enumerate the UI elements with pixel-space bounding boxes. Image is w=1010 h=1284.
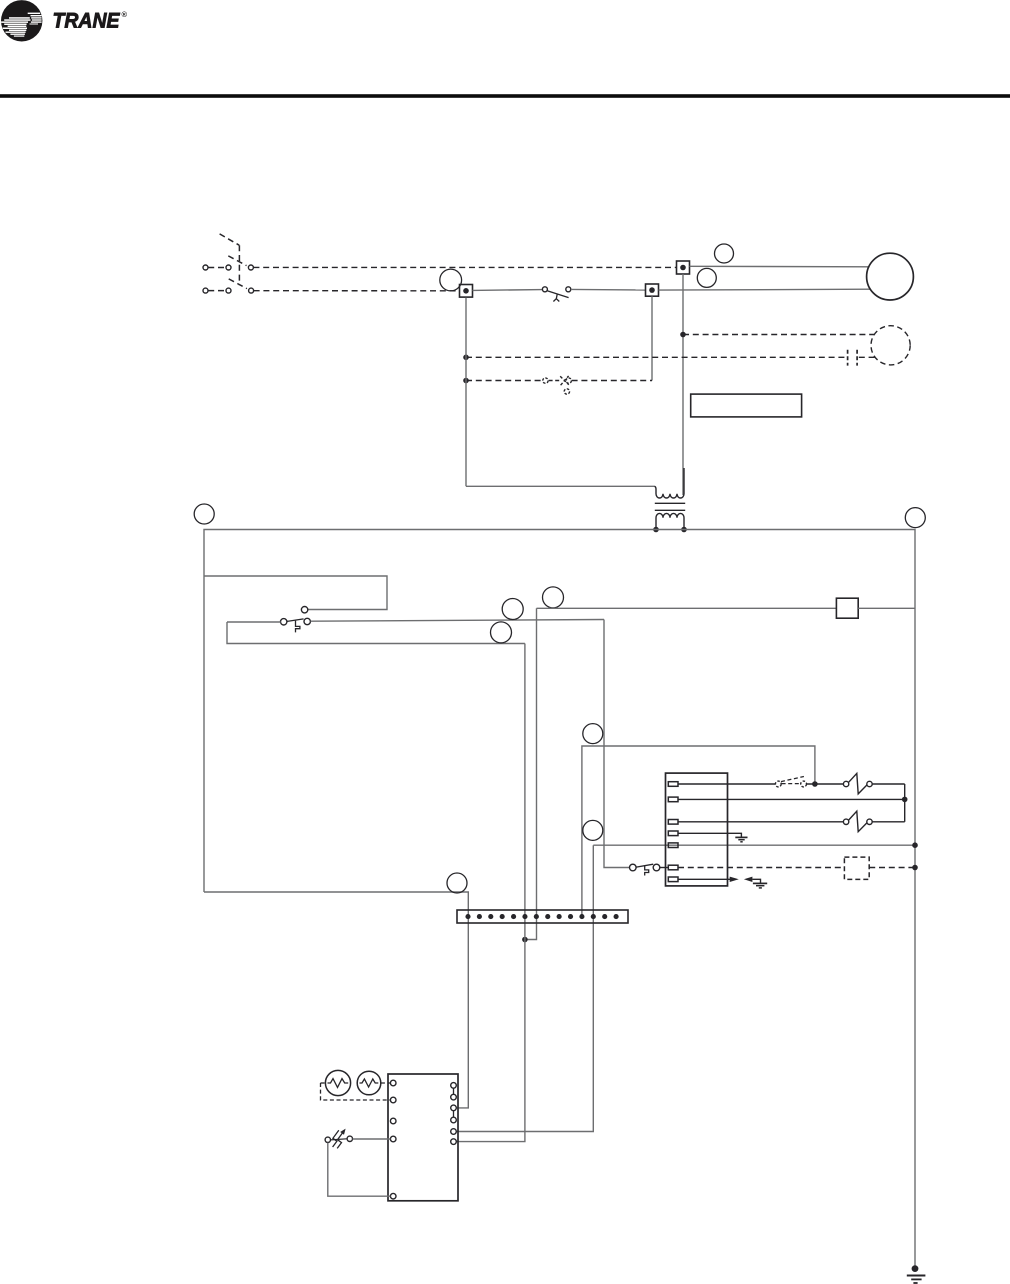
- wire vertical through terminal strip: [457, 644, 525, 1142]
- wire: [807, 783, 844, 785]
- high pressure switch S3 crossed blades: [560, 376, 569, 385]
- disconnect switch S1 line-side terminals row 2: [203, 288, 208, 293]
- terminal strip screw 14: [614, 914, 619, 919]
- terminal strip screw 3: [488, 914, 493, 919]
- board terminal pin 4: [668, 831, 678, 836]
- wire thermostat return loop: [328, 1143, 391, 1197]
- connector plug arrow male: [730, 877, 739, 882]
- ground symbol system ground: [912, 1265, 919, 1272]
- wire dashed capacitor to fan motor: [859, 356, 876, 358]
- wire board pin 7 to connector: [678, 878, 730, 880]
- wire dashed to run capacitor: [466, 356, 845, 358]
- thermostat right terminal 4: [451, 1117, 457, 1123]
- terminal strip screw 10: [568, 914, 573, 919]
- wire dashed to fan motor: [683, 334, 874, 336]
- wire L2 dashed to terminal block: [254, 290, 460, 292]
- wire vertical TB1 to primary lead: [465, 298, 467, 487]
- wire vertical junction leg: [904, 784, 906, 822]
- wire dashed to high pressure switch: [466, 380, 543, 382]
- thermostat left terminal 5: [390, 1193, 396, 1199]
- wire board pin 1 to defrost contact: [678, 783, 775, 785]
- terminal strip screw 8: [545, 914, 550, 919]
- jumper right terminals 1-2: [453, 1088, 455, 1094]
- svg-text:TRANE: TRANE: [53, 9, 121, 33]
- jumper right terminals 3-4: [453, 1111, 455, 1117]
- node junction: [680, 332, 686, 338]
- limit switch S4 blade: [287, 619, 303, 622]
- node junction: [463, 355, 469, 361]
- wire from limit switch: [311, 620, 605, 622]
- wire: [872, 783, 905, 785]
- terminal strip screw 1: [465, 914, 470, 919]
- run capacitor C1 plate 2: [856, 350, 858, 366]
- wire: [473, 289, 543, 292]
- wire label circle: [543, 587, 564, 608]
- thermostat left terminal 3: [390, 1118, 396, 1124]
- wire to relay board: [537, 607, 837, 609]
- wire to compressor motor: [690, 265, 870, 268]
- pressure control switch S5 contacts: [630, 864, 637, 871]
- transformer T1 primary winding: [654, 468, 684, 498]
- defrost relay contact K1 dashed: [775, 781, 781, 787]
- wire: [227, 622, 525, 644]
- board terminal pin 6: [668, 865, 678, 870]
- crankcase heater relay coil dashed box: [844, 857, 869, 879]
- ground symbol chassis ground: [753, 882, 767, 884]
- wire vertical to terminal strip: [525, 608, 537, 939]
- wire board pin 2: [678, 798, 905, 800]
- ground symbol board ground: [735, 836, 747, 838]
- board terminal pin 1: [668, 782, 678, 787]
- thermostat right terminal 2: [451, 1094, 457, 1100]
- disconnect switch S1 handle: [220, 234, 240, 245]
- transformer T1 secondary winding: [656, 513, 684, 529]
- wire dashed board pin 6 to heater relay: [678, 867, 844, 869]
- outdoor fan motor ODF dashed outline: [871, 326, 910, 365]
- overload protector OL1 element: [849, 773, 867, 794]
- terminal strip screw 7: [534, 914, 539, 919]
- pressure control switch S5 reset flag: [645, 866, 649, 876]
- wire upper loop: [204, 576, 387, 610]
- disconnect switch S1 blade pole 2: [229, 279, 247, 289]
- thermostat left terminal 4: [390, 1136, 396, 1142]
- pressure control switch S5 blade: [636, 864, 653, 867]
- terminal block TB1: [460, 285, 473, 298]
- disconnect switch S1 line-side terminals row 1: [203, 265, 208, 270]
- wire vertical from TB2: [651, 296, 653, 380]
- defrost termination thermostat S6 blade: [331, 1139, 347, 1140]
- wire L1 dashed to terminal block: [253, 266, 676, 268]
- compressor motor CPR: [867, 253, 914, 300]
- wire common line through relay board: [593, 844, 915, 846]
- connector plug arrow female: [744, 877, 753, 882]
- wire: [872, 821, 905, 823]
- terminal strip screw 2: [477, 914, 482, 919]
- wire board pin 4 to ground: [678, 833, 741, 837]
- wire thermostat to box: [353, 1138, 391, 1140]
- low voltage terminal strip TB4: [457, 910, 628, 923]
- wire to defrost relay contact: [582, 746, 815, 917]
- limit switch S4 lower contacts: [281, 619, 287, 625]
- limit switch S4 reset flag: [296, 621, 300, 633]
- defrost thermostat heater resistor R2: [357, 1071, 381, 1095]
- terminal block TB2: [646, 284, 659, 296]
- terminal strip screw 11: [579, 914, 584, 919]
- thermostat left terminal 2: [390, 1097, 396, 1103]
- Trane logo circle emblem: [1, 0, 42, 41]
- node junction on right bus: [912, 865, 918, 871]
- node transformer secondary X2: [681, 527, 687, 533]
- wire label circle: [715, 244, 734, 263]
- node junction: [463, 378, 469, 384]
- wire dashed jumper row 2 left: [208, 290, 226, 292]
- wire dashed between contacts: [549, 380, 560, 382]
- transformer T1 core: [655, 502, 685, 504]
- run capacitor C1 plate 1: [847, 350, 849, 366]
- door interlock switch S2 blade: [547, 291, 568, 298]
- defrost termination thermostat S6 contacts: [325, 1137, 330, 1142]
- high pressure switch S3 alternate throw contact: [564, 389, 569, 394]
- wire 24V bus: [204, 530, 915, 1269]
- wire dashed relay to right bus: [869, 867, 915, 869]
- board terminal pin 7: [668, 877, 678, 882]
- defrost control board outline: [666, 773, 728, 886]
- wire to bottom terminal block: [457, 845, 594, 1131]
- thermostat left terminal 1: [390, 1080, 396, 1086]
- wire label circle: [502, 599, 523, 620]
- board terminal pin 3: [668, 820, 678, 825]
- door interlock switch S2 contacts: [542, 287, 547, 292]
- node junction on right bus: [912, 842, 918, 848]
- overload protector OL2 element: [849, 811, 867, 832]
- wire label circle: [583, 820, 603, 840]
- wire to compressor motor: [659, 288, 871, 291]
- header rule: [0, 94, 1010, 98]
- wire: [571, 288, 646, 291]
- wire left bus to terminal strip: [204, 892, 468, 1108]
- node junction: [902, 797, 908, 803]
- terminal block TB3: [677, 261, 690, 274]
- wire vertical down from defrost line: [604, 620, 629, 868]
- limit switch S4 upper contact: [301, 607, 307, 613]
- terminal strip screw 9: [557, 914, 562, 919]
- wire switch to board pin 6: [660, 867, 668, 869]
- node junction: [812, 781, 818, 787]
- wire dashed resistor leads: [321, 1082, 326, 1084]
- svg-text:®: ®: [122, 10, 128, 19]
- thermostat right terminal 3: [451, 1105, 457, 1111]
- wire: [227, 621, 281, 623]
- defrost termination thermostat S6 actuator zigzag 1: [333, 1130, 339, 1147]
- board terminal pin 5: [668, 843, 678, 848]
- wire label circle: [583, 724, 603, 744]
- door interlock switch S2 actuator fork: [553, 294, 559, 301]
- wire board pin 3: [678, 821, 843, 823]
- terminal strip screw 5: [511, 914, 516, 919]
- wire dashed jumper row 1 left: [208, 267, 226, 269]
- terminal strip screw 12: [591, 914, 596, 919]
- board terminal pin 2: [668, 797, 678, 802]
- wire vertical from TB3 to transformer primary: [682, 274, 684, 495]
- node junction below terminal strip: [522, 937, 528, 943]
- high pressure switch S3 contact: [566, 378, 571, 383]
- terminal strip screw 13: [602, 914, 607, 919]
- wire label circle: [697, 268, 716, 287]
- thermostat right terminal 6: [451, 1139, 457, 1145]
- wire label circle: [905, 508, 925, 528]
- wire label circle: [491, 622, 512, 643]
- node transformer secondary X1: [653, 527, 659, 533]
- terminal strip screw 4: [500, 914, 505, 919]
- overload protector OL2 contacts: [843, 819, 848, 824]
- wire to right bus: [858, 607, 915, 609]
- wire connector to ground: [752, 879, 760, 883]
- wire transformer primary left lead: [466, 485, 654, 487]
- disconnect switch S1 tie bar: [238, 245, 240, 285]
- blank nameplate label box: [691, 394, 802, 417]
- defrost termination thermostat S6 actuator zigzag 2 with arrow: [337, 1133, 342, 1149]
- thermostat right terminal 5: [451, 1129, 457, 1135]
- disconnect switch S1 blade pole 1: [228, 256, 246, 266]
- thermostat right terminal 1: [451, 1083, 457, 1089]
- wire dashed high pressure switch to node: [572, 380, 652, 382]
- wire label circle: [447, 873, 467, 893]
- high pressure switch S3 contact: [543, 378, 548, 383]
- terminal strip screw 6: [522, 914, 527, 919]
- overload protector OL1 contacts: [843, 781, 848, 786]
- wire label circle: [194, 504, 214, 524]
- wire dashed resistor return: [321, 1083, 391, 1100]
- thermostat assembly outline: [388, 1074, 458, 1201]
- defrost thermostat heater resistor R1: [325, 1070, 350, 1095]
- wire label circle: [440, 269, 462, 291]
- component label square: [836, 598, 858, 618]
